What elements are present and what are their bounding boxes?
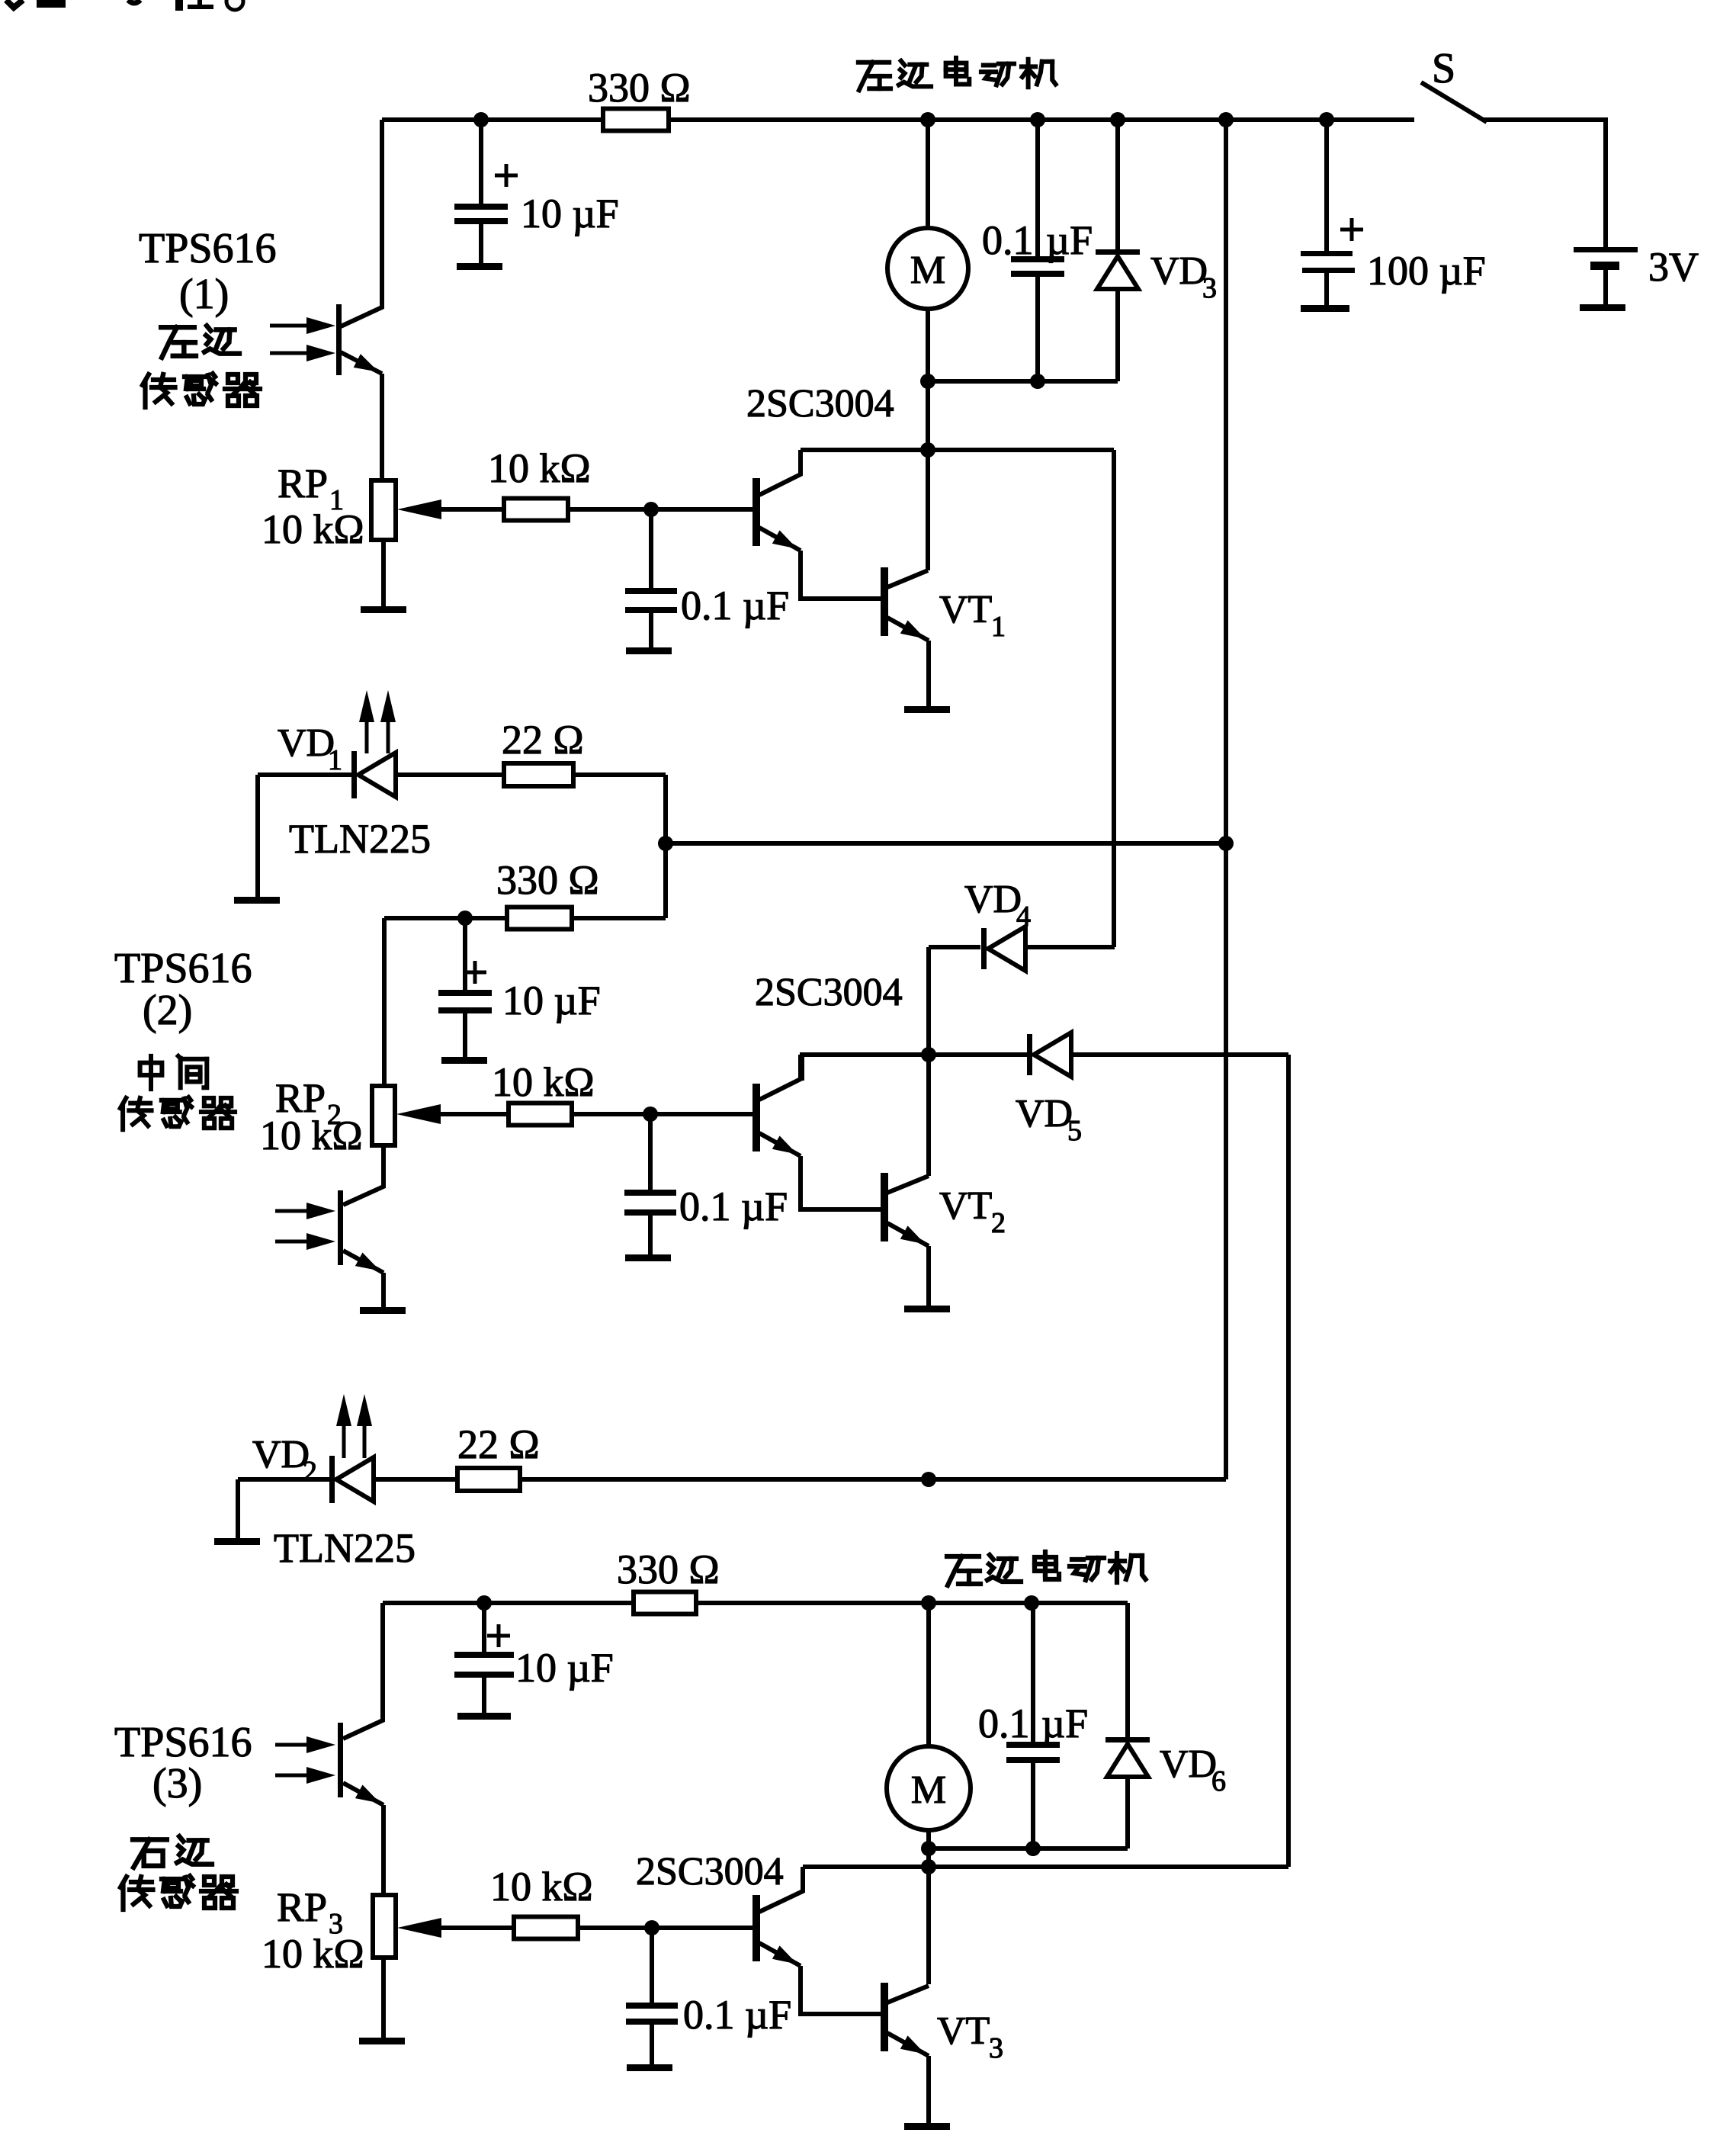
- svg-text:2SC3004: 2SC3004: [636, 1850, 784, 1893]
- svg-text:VD: VD: [252, 1433, 310, 1476]
- svg-text:2: 2: [991, 1207, 1006, 1239]
- svg-text:5: 5: [1067, 1115, 1082, 1147]
- svg-text:1: 1: [328, 744, 342, 776]
- svg-text:VT: VT: [939, 1184, 992, 1228]
- svg-text:VD: VD: [1150, 249, 1208, 293]
- svg-text:µF: µF: [1046, 217, 1093, 263]
- svg-text:330 Ω: 330 Ω: [588, 65, 691, 111]
- svg-text:VT: VT: [939, 588, 992, 631]
- svg-text:22 Ω: 22 Ω: [457, 1421, 540, 1467]
- svg-text:3V: 3V: [1648, 244, 1699, 290]
- svg-text:22 Ω: 22 Ω: [502, 717, 584, 763]
- svg-text:(2): (2): [143, 987, 192, 1034]
- svg-text:10 kΩ: 10 kΩ: [492, 1059, 595, 1105]
- svg-text:2SC3004: 2SC3004: [755, 971, 903, 1014]
- svg-text:RP: RP: [278, 461, 328, 506]
- svg-text:10 µF: 10 µF: [521, 191, 619, 236]
- svg-text:10 kΩ: 10 kΩ: [488, 445, 591, 491]
- svg-text:TPS616: TPS616: [114, 945, 252, 992]
- svg-text:TPS616: TPS616: [114, 1719, 252, 1766]
- svg-text:S: S: [1432, 45, 1455, 92]
- svg-text:6: 6: [1211, 1765, 1226, 1797]
- svg-text:0.1: 0.1: [978, 1701, 1030, 1746]
- svg-text:TLN225: TLN225: [274, 1525, 416, 1571]
- svg-text:VD: VD: [1160, 1742, 1217, 1786]
- svg-text:0.1 µF: 0.1 µF: [683, 1992, 791, 2038]
- svg-text:330 Ω: 330 Ω: [617, 1547, 720, 1592]
- svg-text:10 kΩ: 10 kΩ: [490, 1864, 593, 1909]
- svg-text:10 µF: 10 µF: [502, 978, 601, 1023]
- svg-text:0.1: 0.1: [982, 217, 1034, 263]
- svg-text:10 kΩ: 10 kΩ: [260, 1113, 363, 1158]
- svg-text:10 kΩ: 10 kΩ: [262, 1931, 364, 1977]
- svg-text:0.1 µF: 0.1 µF: [679, 1184, 788, 1229]
- svg-text:1: 1: [991, 611, 1006, 643]
- svg-text:10 kΩ: 10 kΩ: [262, 506, 364, 552]
- svg-text:2SC3004: 2SC3004: [746, 382, 894, 426]
- svg-text:VT: VT: [937, 2009, 990, 2053]
- svg-text:3: 3: [989, 2032, 1003, 2064]
- svg-text:TPS616: TPS616: [139, 225, 277, 272]
- svg-text:4: 4: [1016, 901, 1031, 933]
- svg-text:RP: RP: [277, 1884, 327, 1930]
- svg-text:100 µF: 100 µF: [1367, 248, 1486, 294]
- svg-text:330 Ω: 330 Ω: [496, 857, 599, 903]
- svg-text:(1): (1): [179, 271, 229, 318]
- svg-text:0.1 µF: 0.1 µF: [681, 583, 789, 628]
- svg-text:VD: VD: [964, 878, 1022, 921]
- svg-text:VD: VD: [1016, 1092, 1073, 1135]
- svg-text:VD: VD: [278, 721, 335, 765]
- svg-text:(3): (3): [152, 1760, 202, 1807]
- svg-text:M: M: [910, 249, 945, 292]
- svg-text:M: M: [911, 1768, 946, 1812]
- svg-text:3: 3: [1202, 272, 1217, 304]
- svg-text:2: 2: [303, 1456, 317, 1488]
- svg-text:TLN225: TLN225: [289, 816, 431, 862]
- svg-text:10 µF: 10 µF: [515, 1645, 614, 1691]
- svg-text:µF: µF: [1041, 1701, 1088, 1746]
